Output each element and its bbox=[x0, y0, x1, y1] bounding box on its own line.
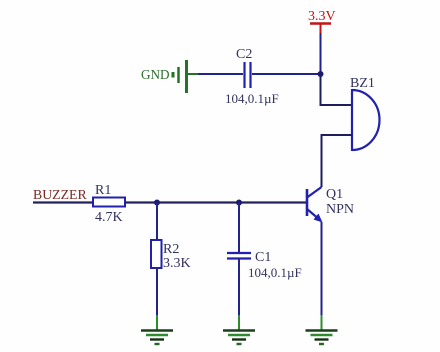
wire 3.3V down to node bbox=[320, 33, 322, 74]
node junction C1 tap bbox=[236, 200, 242, 206]
wire BUZZER to R1 bbox=[33, 201, 94, 203]
wire node to R2 bbox=[156, 203, 158, 241]
svg-text:104,0.1µF: 104,0.1µF bbox=[225, 91, 279, 106]
svg-text:Q1: Q1 bbox=[326, 187, 343, 202]
svg-text:4.7K: 4.7K bbox=[95, 210, 123, 225]
wire C2 to node bbox=[252, 73, 320, 75]
resistor R1 bbox=[93, 183, 125, 225]
svg-text:3.3K: 3.3K bbox=[163, 256, 191, 271]
ground GND (power-ground symbol, left) bbox=[141, 60, 199, 93]
node junction at 3.3V rail bbox=[318, 71, 324, 77]
wire R1 to transistor base bbox=[125, 201, 306, 203]
svg-text:BZ1: BZ1 bbox=[350, 76, 375, 91]
wire buzzer bottom terminal to collector bbox=[322, 135, 353, 187]
node junction R2 tap bbox=[154, 200, 160, 206]
wire C1 to ground bbox=[238, 259, 240, 331]
net label BUZZER bbox=[33, 187, 87, 202]
capacitor C2 bbox=[225, 47, 279, 106]
svg-text:C2: C2 bbox=[236, 47, 252, 62]
wire R2 to ground bbox=[156, 268, 158, 330]
transistor Q1 bbox=[307, 187, 354, 223]
ground (bottom, under Q1 emitter) bbox=[306, 331, 338, 345]
resistor R2 bbox=[151, 240, 191, 271]
svg-text:3.3V: 3.3V bbox=[308, 9, 336, 24]
svg-text:R1: R1 bbox=[95, 183, 111, 198]
svg-text:C1: C1 bbox=[255, 250, 271, 265]
power 3.3V bbox=[308, 9, 336, 34]
wire GND to C2 bbox=[198, 73, 243, 75]
svg-text:BUZZER: BUZZER bbox=[33, 187, 87, 202]
ground (bottom, under R2) bbox=[141, 331, 173, 345]
svg-text:GND: GND bbox=[141, 67, 170, 82]
wire node to C1 bbox=[238, 203, 240, 254]
buzzer BZ1 bbox=[350, 76, 379, 151]
wire node to buzzer top terminal bbox=[321, 74, 353, 105]
svg-text:R2: R2 bbox=[163, 242, 179, 257]
svg-text:NPN: NPN bbox=[326, 202, 354, 217]
ground (bottom, under C1) bbox=[223, 331, 255, 345]
wire emitter to ground bbox=[321, 222, 323, 330]
svg-text:104,0.1µF: 104,0.1µF bbox=[248, 265, 302, 280]
capacitor C1 bbox=[227, 250, 302, 280]
